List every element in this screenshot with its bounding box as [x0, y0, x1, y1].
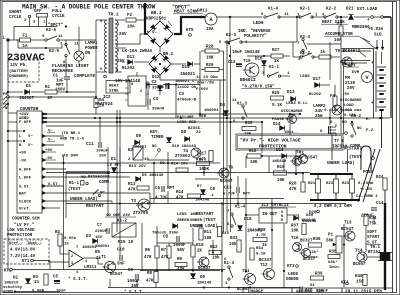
label 10uF 1N4148 [232, 51, 260, 55]
wire [136, 19, 145, 21]
diode D5c [191, 274, 196, 279]
svg-text:R37: R37 [291, 225, 299, 229]
resistor R25 [271, 96, 284, 100]
resistor R7 [167, 246, 171, 258]
svg-text:4.9V|13.0V: 4.9V|13.0V [10, 248, 36, 253]
svg-text:7.2V|14.4V: 7.2V|14.4V [10, 254, 36, 259]
double box line top right [341, 49, 374, 52]
wire [159, 85, 161, 86]
pin CLOCK [42, 199, 46, 203]
label 100K [199, 168, 210, 172]
svg-text:BC557: BC557 [353, 263, 366, 267]
label F.OFF [19, 121, 32, 125]
wire [159, 90, 161, 95]
svg-text:10A: 10A [206, 28, 214, 32]
resistor R1 [45, 90, 57, 94]
fuse [16, 34, 34, 49]
junction [289, 113, 291, 115]
label POLARITY" [244, 34, 267, 39]
label 1k [96, 256, 102, 261]
svg-text:1%: 1% [34, 281, 40, 285]
label 160V [55, 89, 66, 93]
svg-text:V~: V~ [28, 144, 33, 148]
diode D17 [315, 83, 320, 88]
svg-text:R34: R34 [256, 247, 264, 251]
svg-text:LED6: LED6 [288, 273, 299, 277]
resistor R6 [155, 246, 159, 258]
svg-text:0,2: 0,2 [358, 182, 366, 186]
junction [351, 173, 353, 175]
label LK-16A 2W04S [122, 50, 153, 54]
box R1-1 restart [66, 172, 110, 218]
wire v169a [168, 243, 170, 246]
label +0.03A [368, 28, 384, 32]
svg-text:LED9: LED9 [253, 21, 264, 26]
svg-text:2: 2 [71, 255, 73, 259]
label 36V [131, 285, 139, 289]
pin N [42, 143, 46, 147]
label D8 [181, 131, 187, 135]
label V- [152, 32, 157, 36]
svg-text:28.11.2015 PEH: 28.11.2015 PEH [345, 290, 382, 295]
wire [46, 144, 64, 146]
svg-text:1x1O2 Oh: 1x1O2 Oh [177, 85, 197, 90]
label relay spec [105, 214, 136, 218]
label BD681Z [240, 78, 256, 83]
label BC547 [198, 267, 211, 271]
svg-text:1N5819: 1N5819 [272, 160, 287, 164]
svg-text:F/60V: F/60V [196, 87, 209, 92]
test point D20 [317, 210, 320, 213]
wire [17, 40, 19, 48]
label 2139 [345, 82, 356, 86]
label COMM. [350, 145, 363, 149]
label MBR2060 [352, 26, 370, 30]
label BC337 [259, 259, 272, 263]
svg-text:K2-3: K2-3 [226, 34, 237, 38]
svg-text:K1-1: K1-1 [269, 66, 280, 70]
label T10 [243, 60, 251, 64]
label 5.1K [256, 253, 266, 257]
label C14 [376, 202, 384, 206]
box edge h1 [341, 60, 370, 62]
label K1-1 [269, 66, 280, 70]
label (TEST [68, 187, 81, 192]
svg-text:S.ST.: S.ST. [48, 183, 60, 187]
svg-text:Z2: Z2 [196, 131, 201, 135]
label R37 [291, 225, 299, 229]
label 1x1O2 Oh [177, 85, 197, 90]
label D18 [244, 218, 252, 222]
svg-text:47K: 47K [146, 280, 154, 284]
label K2-5 [49, 50, 60, 54]
terminal PE [7, 96, 10, 99]
svg-text:MAIN SW. - A DOUBLE POLE CENTE: MAIN SW. - A DOUBLE POLE CENTER THROW [22, 4, 156, 11]
wire v157b [156, 258, 158, 271]
label R5 [95, 251, 101, 255]
wire [78, 44, 80, 51]
svg-text:T5: T5 [299, 153, 305, 157]
wire [334, 106, 336, 110]
junction [379, 117, 381, 119]
svg-text:C4-16MB 1: C4-16MB 1 [356, 195, 378, 199]
label 1 [225, 282, 228, 286]
label IC3 [260, 204, 296, 208]
IC IC2 [125, 76, 149, 106]
svg-text:R1-2: R1-2 [351, 115, 362, 119]
label + [371, 61, 374, 66]
label ZTX705 [133, 212, 149, 216]
dashed box LV protection [4, 239, 49, 264]
junction [45, 117, 47, 119]
svg-text:POLARITY": POLARITY" [244, 34, 267, 39]
svg-text:-9V: -9V [342, 93, 350, 97]
label LED5 [177, 213, 187, 217]
svg-text:8: 8 [131, 83, 133, 87]
svg-text:F2: F2 [127, 14, 133, 18]
svg-text:T12: T12 [260, 264, 268, 268]
label 7 [227, 210, 230, 214]
label KT1 [22, 260, 30, 264]
wire [18, 47, 62, 49]
label "LV Pr." [14, 223, 34, 228]
relay contact K2-4 [302, 38, 307, 51]
junction [66, 91, 68, 93]
label 10uF [56, 290, 66, 294]
thick wire thyristor cathode [384, 261, 386, 291]
ammeter GM11 [205, 13, 217, 25]
arrow wire 2 [381, 40, 384, 50]
IC IC3 LM78L12 [259, 208, 287, 223]
wire [83, 257, 98, 259]
junction [175, 84, 177, 86]
label R34 [369, 217, 377, 221]
label R34 [256, 247, 264, 251]
junction [99, 117, 101, 119]
label T7 G [334, 140, 345, 144]
svg-text:D18: D18 [244, 218, 252, 222]
svg-text:IC2: IC2 [103, 96, 111, 100]
label D5 [200, 276, 206, 280]
capacitor C14 [371, 208, 377, 210]
label RED [199, 115, 207, 119]
svg-text:C13: C13 [224, 187, 232, 191]
double box line right v [374, 49, 377, 119]
wire [296, 17, 298, 42]
svg-text:10K: 10K [204, 237, 212, 241]
junction [229, 16, 231, 18]
resistor R30 [242, 127, 256, 131]
label HEAT [109, 85, 119, 89]
svg-text:D5: D5 [142, 174, 147, 178]
label T8 [296, 151, 301, 155]
test point KT1 [31, 259, 34, 262]
wire [159, 75, 161, 80]
label + [367, 18, 370, 23]
svg-text:D11: D11 [127, 56, 135, 60]
pin AGND [42, 116, 46, 120]
label EXT.LOAD [357, 8, 378, 12]
wire [159, 47, 161, 52]
svg-text:T9 BC546\2-: T9 BC546\2- [335, 49, 363, 54]
label 9 [261, 13, 264, 17]
junction [351, 199, 353, 201]
label GREEN [286, 278, 299, 282]
label 5.1K [272, 104, 283, 108]
box edge v2 [342, 63, 344, 134]
label PE [3, 93, 8, 97]
svg-text:D3: D3 [86, 235, 92, 239]
svg-text:SINE: SINE [109, 90, 119, 94]
label K2-3 [226, 34, 237, 38]
svg-text:KT1: KT1 [22, 260, 30, 264]
label LEDS RED [177, 121, 197, 125]
svg-text:UNDER: UNDER [190, 219, 203, 223]
label R18 [249, 150, 257, 154]
svg-text:16V: 16V [95, 236, 103, 240]
label 1N4148 [301, 219, 316, 223]
svg-text:100uF: 100uF [127, 280, 140, 284]
label HEAT SINK 2 [321, 21, 348, 25]
svg-text:LM311: LM311 [84, 266, 97, 270]
label K2-4 [300, 36, 311, 40]
label R11 [222, 232, 230, 236]
label C1 [53, 75, 59, 79]
label T16 [291, 237, 299, 241]
junction [271, 229, 273, 231]
label 0.96k [64, 236, 77, 241]
label R6 [145, 249, 151, 253]
svg-text:P1: P1 [328, 234, 334, 238]
label V~ [28, 144, 33, 148]
test point KT5 [189, 34, 192, 37]
label IND. "REVERSE [238, 29, 271, 34]
svg-text:R18: R18 [249, 150, 257, 154]
wire [287, 155, 301, 157]
svg-text:R25: R25 [272, 92, 280, 96]
wire v108 [107, 147, 109, 216]
wire [122, 61, 125, 63]
label SHORT [9, 11, 22, 15]
svg-text:C8: C8 [210, 188, 216, 192]
svg-text:36V: 36V [131, 285, 139, 289]
label BC547 [305, 157, 318, 161]
svg-text:Imax.: Imax. [308, 256, 320, 260]
junction [65, 26, 67, 28]
wire [283, 159, 285, 172]
wire comm drop [347, 150, 349, 172]
junction [381, 117, 383, 119]
wire KT2 long rail [12, 269, 225, 271]
svg-text:C9: C9 [128, 269, 134, 273]
wire v168top [167, 152, 169, 186]
label ZTX603 [175, 155, 191, 159]
label BR.2 [163, 53, 174, 57]
label A.OFF [19, 168, 32, 172]
junction [351, 121, 353, 123]
svg-text:CLOCK: CLOCK [19, 200, 32, 204]
vertical bus 2 [226, 44, 228, 233]
junction [203, 287, 205, 289]
label * S.I.T. [124, 290, 144, 295]
svg-text:10K: 10K [250, 161, 258, 165]
svg-text:D4: D4 [220, 104, 226, 108]
wire PE bus [8, 96, 96, 98]
transistor T13 [343, 231, 355, 241]
wire battery bottom [381, 110, 383, 148]
svg-text:BC547: BC547 [110, 273, 123, 277]
label T5 [299, 153, 305, 157]
label LOW VOLTAGE [7, 229, 35, 233]
resistor R24 [383, 178, 387, 190]
svg-text:UNDER LOAD): UNDER LOAD) [190, 224, 218, 229]
svg-text:LAMP2: LAMP2 [313, 105, 326, 109]
long bus F.OFF [46, 121, 262, 123]
label POND [363, 171, 374, 175]
label "8V Pr."- HIGH VOL [240, 138, 301, 144]
voltmeter DVM [362, 72, 373, 83]
terminal L [7, 39, 10, 42]
label SINE [109, 90, 119, 94]
diode D13 [291, 97, 296, 102]
label TIMER [151, 136, 164, 140]
capacitor C10 [120, 255, 122, 261]
pointer line T9 [360, 52, 366, 57]
label +/-5% [360, 187, 373, 192]
label R40 [355, 275, 363, 279]
label 47K [144, 256, 152, 260]
relay contact K1-4 [264, 13, 280, 18]
label 10K [244, 133, 252, 137]
terminal NO [345, 132, 348, 135]
wire v176 [175, 85, 177, 119]
label 220UF [95, 230, 108, 234]
junction [63, 162, 65, 164]
label SLD. [374, 34, 384, 38]
resistor R4 [94, 99, 98, 108]
pin BAT [42, 191, 46, 195]
label K1-4 [268, 8, 279, 12]
capacitor C7 [107, 228, 109, 234]
svg-text:47K: 47K [128, 189, 136, 193]
label K1-2 [117, 220, 128, 224]
junction [7, 39, 9, 41]
svg-text:C2: C2 [152, 81, 158, 85]
label LM311 [84, 266, 97, 270]
wire [46, 207, 60, 209]
label R3 [33, 276, 39, 280]
svg-text:50V: 50V [177, 249, 185, 253]
svg-text:F-2: F-2 [366, 129, 374, 133]
wire [65, 62, 67, 76]
label T6 [228, 167, 234, 171]
label V~ [28, 135, 33, 139]
transistor T4 [191, 148, 201, 158]
svg-text:R35: R35 [329, 251, 337, 255]
svg-text:PAUSE: PAUSE [272, 118, 285, 122]
svg-text:RL202: RL202 [122, 67, 135, 71]
label D5 [142, 174, 147, 178]
label 47K [161, 256, 169, 260]
label shunt [241, 85, 281, 90]
wire [46, 192, 150, 194]
wire T5 col [295, 150, 297, 175]
svg-text:K1-3: K1-3 [237, 103, 248, 107]
resistor R12 [209, 250, 221, 254]
label 2K [99, 105, 105, 109]
wire [46, 21, 48, 27]
svg-text:5.1K: 5.1K [272, 104, 283, 108]
label 26V [99, 155, 107, 159]
relay contact K2-6 [45, 36, 59, 41]
svg-text:COUNTER.SCH: COUNTER.SCH [12, 218, 40, 222]
label 1N4148 [197, 282, 212, 286]
svg-text:-9V: -9V [45, 157, 53, 161]
svg-text:Ohm: Ohm [366, 181, 374, 186]
long bus 4 [46, 125, 160, 127]
resistor 1k [319, 55, 331, 59]
junction AGND [14, 291, 16, 293]
svg-text:R36: R36 [313, 238, 321, 242]
test point KT4 [346, 282, 349, 285]
svg-text:0.46A max: 0.46A max [340, 109, 362, 113]
label BC547 [220, 180, 233, 184]
svg-text:SLD.: SLD. [374, 34, 384, 38]
svg-text:NO: NO [160, 162, 165, 166]
svg-text:GM11: GM11 [197, 9, 208, 14]
svg-text:RECHARGE: RECHARGE [52, 69, 73, 74]
label R13 [128, 183, 136, 187]
svg-text:R40: R40 [355, 275, 363, 279]
diode D20 [294, 216, 299, 221]
label C13 [224, 187, 232, 191]
svg-text:LEDS RED: LEDS RED [177, 121, 197, 125]
wire left mid column [63, 155, 65, 270]
vertical 246 [245, 210, 247, 273]
wire [340, 17, 342, 25]
resistor R29 [205, 68, 219, 72]
svg-text:47K: 47K [289, 188, 297, 192]
svg-text:330nM: 330nM [152, 108, 165, 112]
wire C9 stub [136, 280, 138, 288]
junction [226, 117, 228, 119]
wire v157a [156, 226, 158, 246]
wire [263, 66, 265, 76]
label DVM [352, 71, 360, 75]
label 0,2 [358, 182, 366, 186]
big loop [361, 146, 371, 170]
transistor T14 [357, 252, 367, 262]
wire drop 168 [167, 191, 169, 204]
vertical bus 1 [223, 51, 225, 232]
label 11 [284, 13, 289, 17]
label 1N4021 1 [175, 80, 195, 84]
svg-text:R23: R23 [342, 182, 350, 186]
label ACCUMULATOR [324, 33, 360, 37]
svg-text:4700uF/B: 4700uF/B [177, 98, 197, 103]
svg-text:IN OUT: IN OUT [262, 213, 278, 217]
svg-text:MPT: MPT [56, 84, 64, 88]
svg-text:D13: D13 [287, 91, 295, 95]
label * S.I.T. [68, 277, 88, 282]
svg-text:UNDER LOAD): UNDER LOAD) [70, 197, 98, 202]
transformer TR.1 secondary winding 26V [115, 48, 122, 72]
svg-text:BZX55.: BZX55. [188, 127, 202, 131]
thick wire [180, 16, 182, 35]
label D1 [26, 85, 32, 89]
relay contact K2-2 [324, 13, 338, 18]
svg-text:Imin.: Imin. [329, 265, 341, 270]
